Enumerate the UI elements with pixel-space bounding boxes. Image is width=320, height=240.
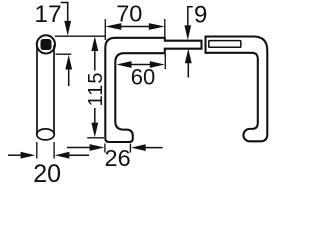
extension line: top face (17/115 datum) (55, 35, 106, 37)
dim 9 up arrow (187, 63, 189, 78)
front view: grip hub circle (37, 35, 55, 53)
svg-text:9: 9 (194, 2, 207, 29)
extension line: tube left edge (20) (36, 142, 38, 159)
dim 60 line with arrows (130, 64, 151, 66)
dim 115 top arrow (94, 50, 96, 71)
extension line: 70 right / spindle root (164, 19, 166, 38)
dim 20 left arrow (8, 154, 22, 156)
svg-text:60: 60 (131, 64, 155, 89)
front view: grip tube left edge (36, 45, 38, 134)
dim 26 left arrow (67, 147, 90, 149)
dim 17 up arrow (68, 69, 70, 86)
svg-text:17: 17 (34, 1, 61, 28)
top view: handle outline with hook (206, 37, 268, 142)
dim 115 bottom arrow (94, 108, 96, 123)
dim 26 right arrow (145, 147, 163, 149)
extension line: hub bottom (17) (56, 53, 72, 55)
extension line: 70 left (104, 19, 106, 40)
svg-text:26: 26 (105, 145, 131, 171)
svg-text:115: 115 (85, 72, 107, 107)
dim 17 bracket and down arrow (61, 3, 68, 22)
extension line: foot axis (115) (87, 137, 104, 139)
dim 20 right arrow (69, 154, 89, 156)
front view: square spindle hole (filled) (41, 39, 52, 50)
dim 70 line with arrows (120, 26, 150, 28)
extension line: 26 left (104, 144, 106, 153)
dim 9 bracket and down arrow (188, 7, 193, 26)
svg-text:20: 20 (33, 160, 61, 184)
top view: spindle slot (209, 41, 241, 48)
front view: open tube end ellipse (37, 129, 55, 140)
extension line: 60 right (164, 54, 166, 69)
extension line: 26 right (129, 144, 131, 153)
side view: handle C-profile outline (105, 38, 201, 142)
extension line: tube right edge (20) (53, 142, 55, 159)
front view: grip tube right edge (53, 45, 55, 134)
svg-text:70: 70 (116, 1, 142, 27)
